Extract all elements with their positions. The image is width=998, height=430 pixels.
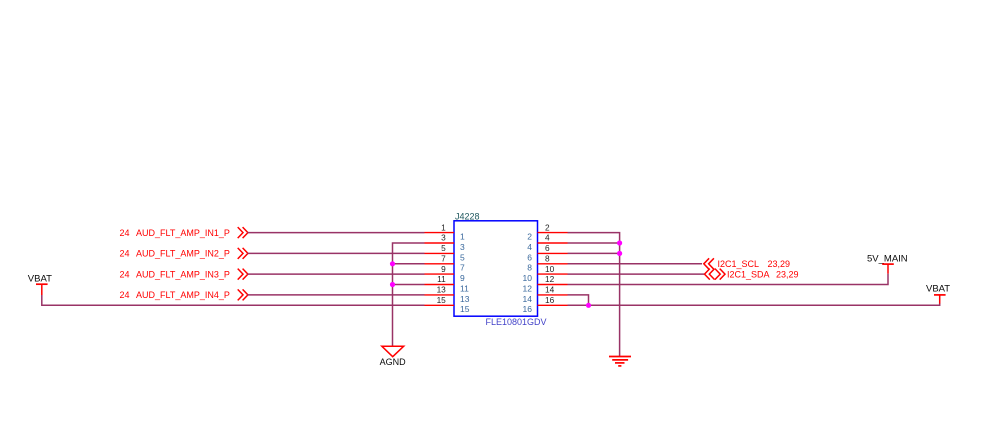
svg-text:24: 24 — [119, 269, 129, 279]
svg-text:VBAT: VBAT — [926, 283, 950, 294]
junction AGND pin 11 — [390, 282, 395, 287]
svg-text:24: 24 — [119, 290, 129, 300]
svg-text:AUD_FLT_AMP_IN1_P: AUD_FLT_AMP_IN1_P — [136, 228, 230, 238]
port AUD_FLT_AMP_IN4_P — [119, 289, 247, 300]
svg-text:24: 24 — [119, 228, 129, 238]
wire AGND branch to pin 11 — [393, 284, 425, 286]
svg-text:2: 2 — [527, 232, 532, 242]
svg-text:15: 15 — [437, 295, 447, 305]
pin 16 — [523, 295, 568, 314]
connector J4228 body — [454, 221, 538, 316]
wire net VBAT right pin 16 — [568, 303, 940, 305]
svg-text:4: 4 — [545, 233, 550, 243]
ground AGND symbol — [380, 346, 407, 367]
junction GND pin 6 — [617, 251, 622, 256]
pin 15 — [425, 295, 470, 314]
wire net AUD_FLT_AMP_IN1_P to pin 1 — [248, 232, 425, 234]
svg-text:11: 11 — [437, 274, 446, 284]
power symbol VBAT left — [28, 273, 52, 295]
svg-text:4: 4 — [527, 242, 532, 252]
svg-text:J4228: J4228 — [455, 212, 480, 222]
pin 12 — [523, 274, 568, 293]
port AUD_FLT_AMP_IN1_P — [119, 227, 247, 238]
power symbol VBAT right — [926, 283, 950, 303]
svg-text:24: 24 — [119, 249, 129, 259]
svg-text:I2C1_SCL: I2C1_SCL — [718, 259, 760, 269]
wire net VBAT left to pin 15 — [42, 295, 425, 305]
pin 1 — [425, 222, 466, 241]
svg-text:AGND: AGND — [380, 357, 407, 367]
pin 5 — [425, 243, 466, 262]
svg-text:12: 12 — [545, 274, 555, 284]
junction AGND pin 7 — [390, 261, 395, 266]
svg-text:3: 3 — [441, 233, 446, 243]
junction GND pin 4 — [617, 240, 622, 245]
wire net AUD_FLT_AMP_IN4_P to pin 13 — [248, 294, 425, 296]
svg-text:I2C1_SDA: I2C1_SDA — [727, 269, 770, 279]
svg-text:10: 10 — [523, 273, 533, 283]
wire net 5V_MAIN pin 12 — [568, 274, 889, 285]
svg-text:AUD_FLT_AMP_IN3_P: AUD_FLT_AMP_IN3_P — [136, 269, 230, 279]
wire net I2C1_SDA pin 10 — [568, 273, 705, 275]
port I2C1_SDA — [705, 269, 799, 280]
svg-text:11: 11 — [460, 283, 469, 293]
pin 14 — [523, 285, 568, 304]
svg-text:14: 14 — [523, 294, 533, 304]
svg-text:10: 10 — [545, 264, 555, 274]
svg-text:14: 14 — [545, 285, 555, 295]
svg-text:3: 3 — [460, 242, 465, 252]
svg-text:13: 13 — [460, 294, 470, 304]
power symbol 5V_MAIN — [867, 254, 908, 274]
pin 13 — [425, 285, 470, 304]
wire pin 2 to GND vertical — [568, 233, 620, 357]
wire net AUD_FLT_AMP_IN2_P to pin 5 — [248, 252, 425, 254]
svg-text:23,29: 23,29 — [776, 269, 799, 279]
wire net AUD_FLT_AMP_IN3_P to pin 9 — [248, 273, 425, 275]
svg-text:1: 1 — [441, 222, 446, 232]
svg-text:7: 7 — [460, 263, 465, 273]
svg-text:1: 1 — [460, 232, 465, 242]
pin 3 — [425, 233, 466, 252]
port AUD_FLT_AMP_IN2_P — [119, 248, 247, 259]
svg-text:FLE10801GDV: FLE10801GDV — [486, 317, 547, 327]
wire AGND branch to pin 7 — [393, 263, 425, 265]
wire pin 6 to GND vertical — [568, 252, 620, 254]
svg-text:AUD_FLT_AMP_IN4_P: AUD_FLT_AMP_IN4_P — [136, 290, 230, 300]
svg-text:5: 5 — [460, 252, 465, 262]
wire net I2C1_SCL pin 8 — [568, 263, 703, 265]
pin 2 — [527, 222, 567, 241]
svg-text:6: 6 — [527, 252, 532, 262]
pin 7 — [425, 254, 466, 273]
ground GND symbol — [609, 357, 631, 366]
svg-text:12: 12 — [523, 283, 533, 293]
svg-text:8: 8 — [527, 263, 532, 273]
wire pin 4 to GND vertical — [568, 242, 620, 244]
wire net AGND pin 3 branch — [393, 243, 425, 346]
svg-text:5: 5 — [441, 243, 446, 253]
svg-text:16: 16 — [545, 295, 555, 305]
svg-text:16: 16 — [523, 304, 533, 314]
svg-text:9: 9 — [460, 273, 465, 283]
pin 10 — [523, 264, 568, 283]
svg-text:13: 13 — [437, 285, 447, 295]
pin 11 — [425, 274, 470, 293]
pin 6 — [527, 243, 567, 262]
svg-text:AUD_FLT_AMP_IN2_P: AUD_FLT_AMP_IN2_P — [136, 249, 230, 259]
wire pin 14 jog to VBAT net — [568, 295, 589, 305]
pin 9 — [425, 264, 466, 283]
pin 8 — [527, 254, 567, 273]
svg-text:5V_MAIN: 5V_MAIN — [867, 254, 908, 265]
svg-text:15: 15 — [460, 304, 470, 314]
port I2C1_SCL — [704, 258, 790, 269]
svg-text:VBAT: VBAT — [28, 273, 52, 284]
pin 4 — [527, 233, 567, 252]
port AUD_FLT_AMP_IN3_P — [119, 269, 247, 280]
svg-text:7: 7 — [441, 254, 446, 264]
svg-text:8: 8 — [545, 254, 550, 264]
svg-text:2: 2 — [545, 222, 550, 232]
svg-text:23,29: 23,29 — [768, 259, 791, 269]
svg-text:6: 6 — [545, 243, 550, 253]
svg-text:9: 9 — [441, 264, 446, 274]
junction VBAT pin 14 — [586, 303, 591, 308]
